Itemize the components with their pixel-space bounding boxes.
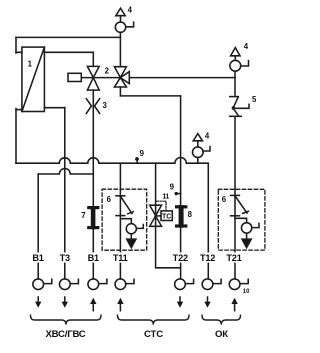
flow limiter 7 [87,206,99,229]
check valve in box 6 left bottom tick [116,215,125,217]
connection handle T12 [213,279,221,283]
air vent 4 top handle [121,16,134,27]
pump flow arrow in box 6 left [127,239,136,247]
flow arrow T21 up [231,298,237,311]
check valve in box 6 left end tick [128,212,134,214]
connection handle T3 [70,279,78,283]
flow arrow B1 left down [35,297,41,308]
air vent 4 middle handle [203,147,210,151]
return bus B with crossover hop [38,169,93,175]
wire valve V1 riser [92,52,94,66]
air vent 4 right handle [235,56,248,66]
heat exchanger U1 body [22,47,45,111]
flow limiter 8 [175,205,187,227]
svg-text:Т3: Т3 [60,253,70,263]
connection circle B1 middle [88,279,99,290]
dashed pump unit box 6 right [218,189,265,250]
connection handle B1 middle [99,279,107,283]
node 9 stub on bus A [136,160,138,163]
check valve in box 6 right diagonal [235,196,247,213]
valve 2 control valve left body [87,66,99,90]
pressure regulator 5 top tick [230,96,238,98]
svg-text:Т21: Т21 [226,253,241,263]
thermostat valve 11 body [150,205,162,226]
air vent 4 top triangle [116,8,125,16]
svg-text:2: 2 [105,66,110,75]
flow arrow T12 down [204,297,210,308]
pressure regulator 5 handle [235,104,249,108]
pressure regulator 5 upper diagonal [233,97,238,107]
group brace OK [202,315,241,324]
svg-text:9: 9 [170,183,175,192]
wire T21 lower column [234,117,236,279]
pump branch in box 6 left [120,219,131,224]
wire thermostat valve column [156,163,181,268]
wire left riser lower segment [15,109,17,164]
air vent 4 right triangle [231,48,240,56]
node 9 stub on T22 [178,193,181,195]
connection circle T11 [115,279,126,290]
flow arrow B1 middle up [90,298,96,311]
connection circle T21 [229,279,240,290]
pump flow arrow in box 6 right [242,239,251,247]
pump handle in box 6 left [136,225,143,229]
pump branch in box 6 right [235,218,247,222]
wire branch to heat exchanger top / valve riser [16,51,93,53]
group brace STS [118,315,190,324]
thermostat link stub [156,215,161,217]
pump stem in box 6 right [246,233,248,239]
wire HX right port to T3 [44,107,64,109]
connection circle T3 [59,279,70,290]
air vent 4 top circle [115,22,125,32]
supply bus A with crossover hops [16,157,208,279]
air vent 4 middle stub [197,141,199,163]
connection handle T22 [186,279,194,283]
svg-text:ХВС/ГВС: ХВС/ГВС [45,329,85,340]
wire below three-way valve [119,87,121,96]
svg-text:6: 6 [107,195,112,204]
wire riser above three-way valve [119,32,121,66]
svg-text:4: 4 [128,6,133,15]
wire left link to HX left port [16,109,22,111]
wire valve line horizontal [81,77,235,79]
svg-text:8: 8 [188,210,193,219]
pressure regulator 5 lower diagonal [233,109,238,116]
svg-text:В1: В1 [32,253,43,263]
label background masks [31,252,244,262]
text labels [32,253,241,340]
check valve in box 6 right top tick [231,194,240,196]
svg-text:11: 11 [162,191,169,200]
connection handle B1 left [44,279,52,283]
wire top header horizontal [16,36,120,38]
air vent 4 right circle [230,60,241,71]
svg-text:7: 7 [81,211,85,220]
svg-text:Т22: Т22 [173,253,188,263]
three-way valve 2 body [114,67,129,87]
flow arrow T22 down [177,297,183,308]
connection circle T12 [202,279,213,290]
check valve in box 6 left diagonal [120,196,132,213]
connection handle T11 [126,279,134,283]
svg-text:СТС: СТС [144,329,163,340]
wire B1 middle column [92,90,94,279]
connection circle T22 [175,279,186,290]
node 9 dot on bus A [135,157,139,161]
connection handle T21 [240,279,248,283]
wire T21 upper column [234,71,236,95]
wire B1 left column [37,174,39,279]
actuator box of valve 2 [68,73,81,81]
connection circle B1 left [33,279,44,290]
wire T22 column [180,96,182,279]
svg-text:ТС: ТС [162,213,171,220]
air vent 4 middle circle [193,147,204,158]
svg-text:ОК: ОК [215,329,228,340]
svg-text:10: 10 [243,289,250,295]
heat exchanger U1 diagonal [22,47,45,111]
check valve in box 6 left top tick [116,195,125,197]
thermostat dashed link [157,201,167,211]
dashed pump unit box 6 left [102,189,147,250]
TC controller box [161,211,172,221]
node 9 dot on T22 [175,192,178,195]
wire elbow to T22 riser [120,95,180,97]
svg-text:3: 3 [103,101,108,110]
check valve in box 6 right end tick [243,211,249,213]
svg-text:Т12: Т12 [200,253,215,263]
svg-text:4: 4 [244,42,249,51]
svg-text:5: 5 [252,95,257,104]
check valve in box 6 right bottom tick [231,215,240,217]
svg-text:6: 6 [222,195,227,204]
flow arrow T11 up [117,298,123,311]
pump stem in box 6 left [130,234,132,239]
svg-text:Т11: Т11 [113,253,128,263]
pump circle in box 6 left [126,224,136,234]
svg-text:В1: В1 [88,253,99,263]
wire T3 column [64,108,66,279]
wire left riser upper segment [15,37,17,53]
valve 3 right chevron [95,99,100,114]
pump circle in box 6 right [241,223,251,233]
svg-text:9: 9 [140,149,145,158]
air vent 4 middle triangle [193,134,202,141]
wire T11 lower column [119,163,121,279]
pressure regulator 5 bottom tick [230,115,242,117]
flow arrow T3 down [62,297,68,308]
group brace HVS/GVS [31,315,102,324]
svg-text:1: 1 [28,59,33,68]
svg-text:4: 4 [205,132,210,141]
pump handle in box 6 right [252,223,259,227]
valve 3 left chevron [86,99,91,114]
pressure regulator 5 pivot dot [232,106,235,109]
